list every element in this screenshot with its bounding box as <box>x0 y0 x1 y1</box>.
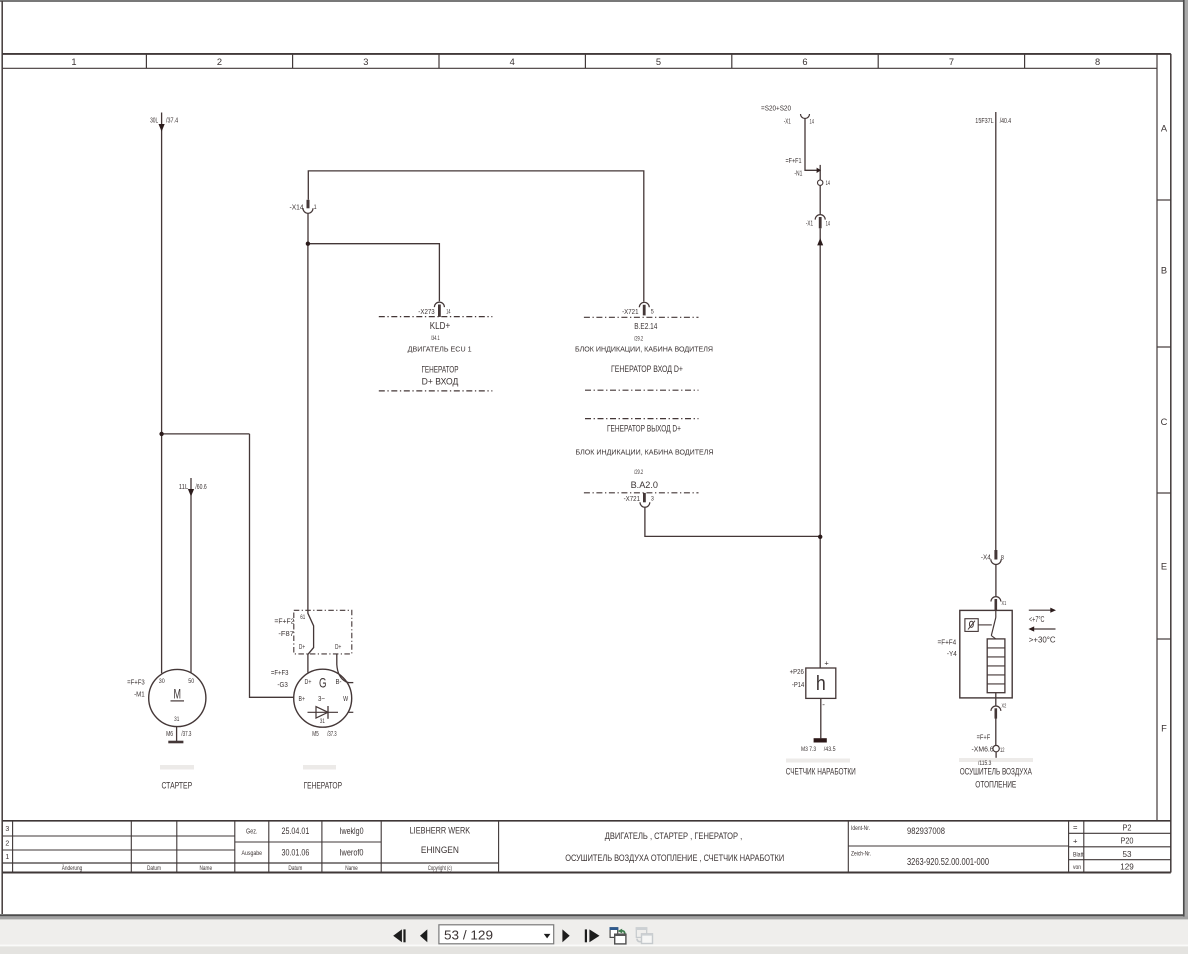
svg-text:/43.5: /43.5 <box>824 746 836 753</box>
svg-text:/60.6: /60.6 <box>195 482 206 491</box>
svg-text:<+7°C: <+7°C <box>1029 615 1045 624</box>
svg-text:Änderung: Änderung <box>62 864 83 872</box>
svg-text:30.01.06: 30.01.06 <box>282 848 310 858</box>
svg-text:B: B <box>1161 265 1167 275</box>
svg-text:G: G <box>319 675 327 691</box>
svg-text:+P26: +P26 <box>790 667 804 676</box>
svg-text:Ident-Nr.: Ident-Nr. <box>851 825 870 832</box>
svg-text:Iwerof0: Iwerof0 <box>340 848 364 858</box>
svg-text:+: + <box>1073 836 1078 845</box>
svg-text:-X4: -X4 <box>981 553 991 562</box>
svg-text:53: 53 <box>1123 849 1132 859</box>
svg-text:-X721: -X721 <box>622 307 638 316</box>
svg-text:ГЕНЕРАТОР: ГЕНЕРАТОР <box>421 365 458 375</box>
svg-text:ГЕНЕРАТОР ВХОД D+: ГЕНЕРАТОР ВХОД D+ <box>611 364 683 374</box>
svg-text:-X14: -X14 <box>290 203 304 212</box>
svg-text:14: 14 <box>446 309 450 316</box>
svg-text:D+ ВХОД: D+ ВХОД <box>422 377 459 387</box>
svg-text:EHINGEN: EHINGEN <box>421 845 459 855</box>
svg-text:Zeich-Nr.: Zeich-Nr. <box>851 850 871 857</box>
svg-text:3263-920.52.00.001-000: 3263-920.52.00.001-000 <box>907 857 989 868</box>
svg-text:Datum: Datum <box>288 865 302 872</box>
svg-text:Name: Name <box>200 865 213 872</box>
svg-text:M5: M5 <box>312 731 319 738</box>
svg-text:-: - <box>822 700 825 709</box>
svg-text:=F+F4: =F+F4 <box>938 638 957 647</box>
svg-text:/37.3: /37.3 <box>327 731 336 738</box>
svg-text:/37.3: /37.3 <box>181 731 191 738</box>
svg-text:-F87: -F87 <box>278 629 294 638</box>
svg-text:8: 8 <box>1001 555 1005 562</box>
svg-text:C: C <box>1161 417 1168 427</box>
svg-text:/37.4: /37.4 <box>166 115 178 124</box>
svg-text:/40.4: /40.4 <box>1000 116 1012 125</box>
svg-text:-N1: -N1 <box>794 169 802 178</box>
svg-text:15F37L: 15F37L <box>975 116 993 125</box>
svg-text:ДВИГАТЕЛЬ , СТАРТЕР , ГЕНЕРАТО: ДВИГАТЕЛЬ , СТАРТЕР , ГЕНЕРАТОР , <box>605 831 743 841</box>
svg-text:6: 6 <box>802 57 807 67</box>
svg-text:-M1: -M1 <box>134 690 145 699</box>
svg-text:1: 1 <box>5 854 9 861</box>
svg-text:F: F <box>1161 723 1167 733</box>
svg-text:D+: D+ <box>305 679 312 686</box>
svg-text:129: 129 <box>1120 862 1134 872</box>
svg-text:12: 12 <box>1000 747 1005 754</box>
svg-text:=: = <box>1073 823 1078 832</box>
svg-text:31: 31 <box>174 716 179 723</box>
svg-text:W: W <box>343 694 349 703</box>
svg-text:=F+F3: =F+F3 <box>127 677 145 686</box>
svg-text:-P14: -P14 <box>792 680 804 689</box>
svg-text:=S20+S20: =S20+S20 <box>761 105 791 112</box>
svg-text:Iweklg0: Iweklg0 <box>340 826 364 836</box>
svg-text:2: 2 <box>217 57 222 67</box>
svg-text:61: 61 <box>300 615 305 621</box>
svg-text:Ausgabe: Ausgabe <box>242 850 263 857</box>
svg-text:ОТОПЛЕНИЕ: ОТОПЛЕНИЕ <box>975 779 1016 789</box>
svg-text:-Y4: -Y4 <box>947 649 957 658</box>
svg-text:D+: D+ <box>335 644 341 651</box>
svg-text:1: 1 <box>71 57 76 67</box>
svg-text:X1: X1 <box>1002 601 1007 607</box>
svg-text:5: 5 <box>651 309 654 316</box>
svg-text:B+: B+ <box>299 696 306 703</box>
svg-text:X2: X2 <box>1002 703 1007 709</box>
svg-text:Name: Name <box>345 865 358 872</box>
svg-text:KLD+: KLD+ <box>430 321 451 332</box>
svg-text:53 / 129: 53 / 129 <box>444 928 493 943</box>
svg-text:/29.2: /29.2 <box>634 336 643 343</box>
svg-text:+: + <box>824 659 829 668</box>
svg-text:A: A <box>1161 123 1168 133</box>
svg-text:3: 3 <box>5 826 9 833</box>
svg-text:=F+F3: =F+F3 <box>271 668 289 677</box>
svg-text:h: h <box>816 673 826 695</box>
svg-text:-X273: -X273 <box>418 307 434 316</box>
svg-text:ОСУШИТЕЛЬ ВОЗДУХА ОТОПЛЕНИЕ ,: ОСУШИТЕЛЬ ВОЗДУХА ОТОПЛЕНИЕ , СЧЕТЧИК НА… <box>565 853 784 863</box>
svg-text:БЛОК ИНДИКАЦИИ, КАБИНА ВОДИТЕЛ: БЛОК ИНДИКАЦИИ, КАБИНА ВОДИТЕЛЯ <box>576 447 714 456</box>
svg-text:3: 3 <box>363 57 368 67</box>
svg-text:БЛОК ИНДИКАЦИИ, КАБИНА ВОДИТЕЛ: БЛОК ИНДИКАЦИИ, КАБИНА ВОДИТЕЛЯ <box>575 345 713 354</box>
svg-text:=F+F2: =F+F2 <box>274 617 294 626</box>
svg-text:30: 30 <box>159 678 165 685</box>
svg-text:/29.2: /29.2 <box>634 469 643 476</box>
svg-text:14: 14 <box>826 221 831 228</box>
svg-text:D+: D+ <box>299 644 305 651</box>
svg-text:P2: P2 <box>1123 822 1132 832</box>
svg-text:30L: 30L <box>150 115 158 124</box>
svg-text:Copyright (c): Copyright (c) <box>428 866 452 872</box>
svg-text:4: 4 <box>510 57 515 67</box>
svg-text:B-: B- <box>336 679 343 686</box>
svg-text:von: von <box>1073 864 1081 871</box>
svg-text:31: 31 <box>320 719 325 725</box>
svg-text:ОСУШИТЕЛЬ ВОЗДУХА: ОСУШИТЕЛЬ ВОЗДУХА <box>960 767 1032 777</box>
svg-text:2: 2 <box>5 841 9 848</box>
svg-text:Blatt: Blatt <box>1073 852 1084 859</box>
svg-text:-XM6.6: -XM6.6 <box>972 747 994 754</box>
svg-text:>+30°C: >+30°C <box>1029 634 1056 644</box>
svg-text:ГЕНЕРАТОР: ГЕНЕРАТОР <box>304 780 342 790</box>
svg-text:-X721: -X721 <box>624 494 640 503</box>
svg-text:B.E2.14: B.E2.14 <box>634 321 657 331</box>
svg-text:14: 14 <box>810 119 815 126</box>
svg-text:3: 3 <box>651 496 654 503</box>
svg-text:50: 50 <box>188 678 194 685</box>
svg-text:СТАРТЕР: СТАРТЕР <box>161 780 192 790</box>
svg-text:ДВИГАТЕЛЬ ECU 1: ДВИГАТЕЛЬ ECU 1 <box>408 344 472 353</box>
svg-text:P20: P20 <box>1121 836 1134 846</box>
svg-text:M: M <box>174 685 182 701</box>
svg-text:8: 8 <box>1095 57 1100 67</box>
svg-text:Datum: Datum <box>147 865 161 872</box>
svg-text:1: 1 <box>314 204 317 211</box>
svg-text:-X1: -X1 <box>806 219 813 228</box>
svg-text:-X1: -X1 <box>784 118 791 125</box>
svg-text:LIEBHERR WERK: LIEBHERR WERK <box>410 826 471 836</box>
svg-text:11L: 11L <box>179 482 189 491</box>
svg-text:25.04.01: 25.04.01 <box>282 826 310 836</box>
svg-text:СЧЕТЧИК НАРАБОТКИ: СЧЕТЧИК НАРАБОТКИ <box>786 767 856 777</box>
svg-text:ГЕНЕРАТОР ВЫХОД D+: ГЕНЕРАТОР ВЫХОД D+ <box>607 423 681 433</box>
svg-text:E: E <box>1161 561 1167 571</box>
svg-text:=F+F1: =F+F1 <box>786 156 802 165</box>
svg-text:B.A2.0: B.A2.0 <box>631 480 658 490</box>
svg-text:=F+F: =F+F <box>977 734 991 741</box>
svg-text:/34.1: /34.1 <box>431 335 440 342</box>
svg-text:M6: M6 <box>166 731 173 738</box>
svg-text:7: 7 <box>949 57 954 67</box>
svg-text:5: 5 <box>656 57 661 67</box>
svg-text:M3 7.3: M3 7.3 <box>801 746 816 753</box>
svg-text:-G3: -G3 <box>277 680 287 689</box>
svg-text:Gez.: Gez. <box>246 829 258 836</box>
svg-text:14: 14 <box>826 180 831 187</box>
svg-text:3~: 3~ <box>318 694 325 703</box>
svg-text:982937008: 982937008 <box>907 826 945 837</box>
